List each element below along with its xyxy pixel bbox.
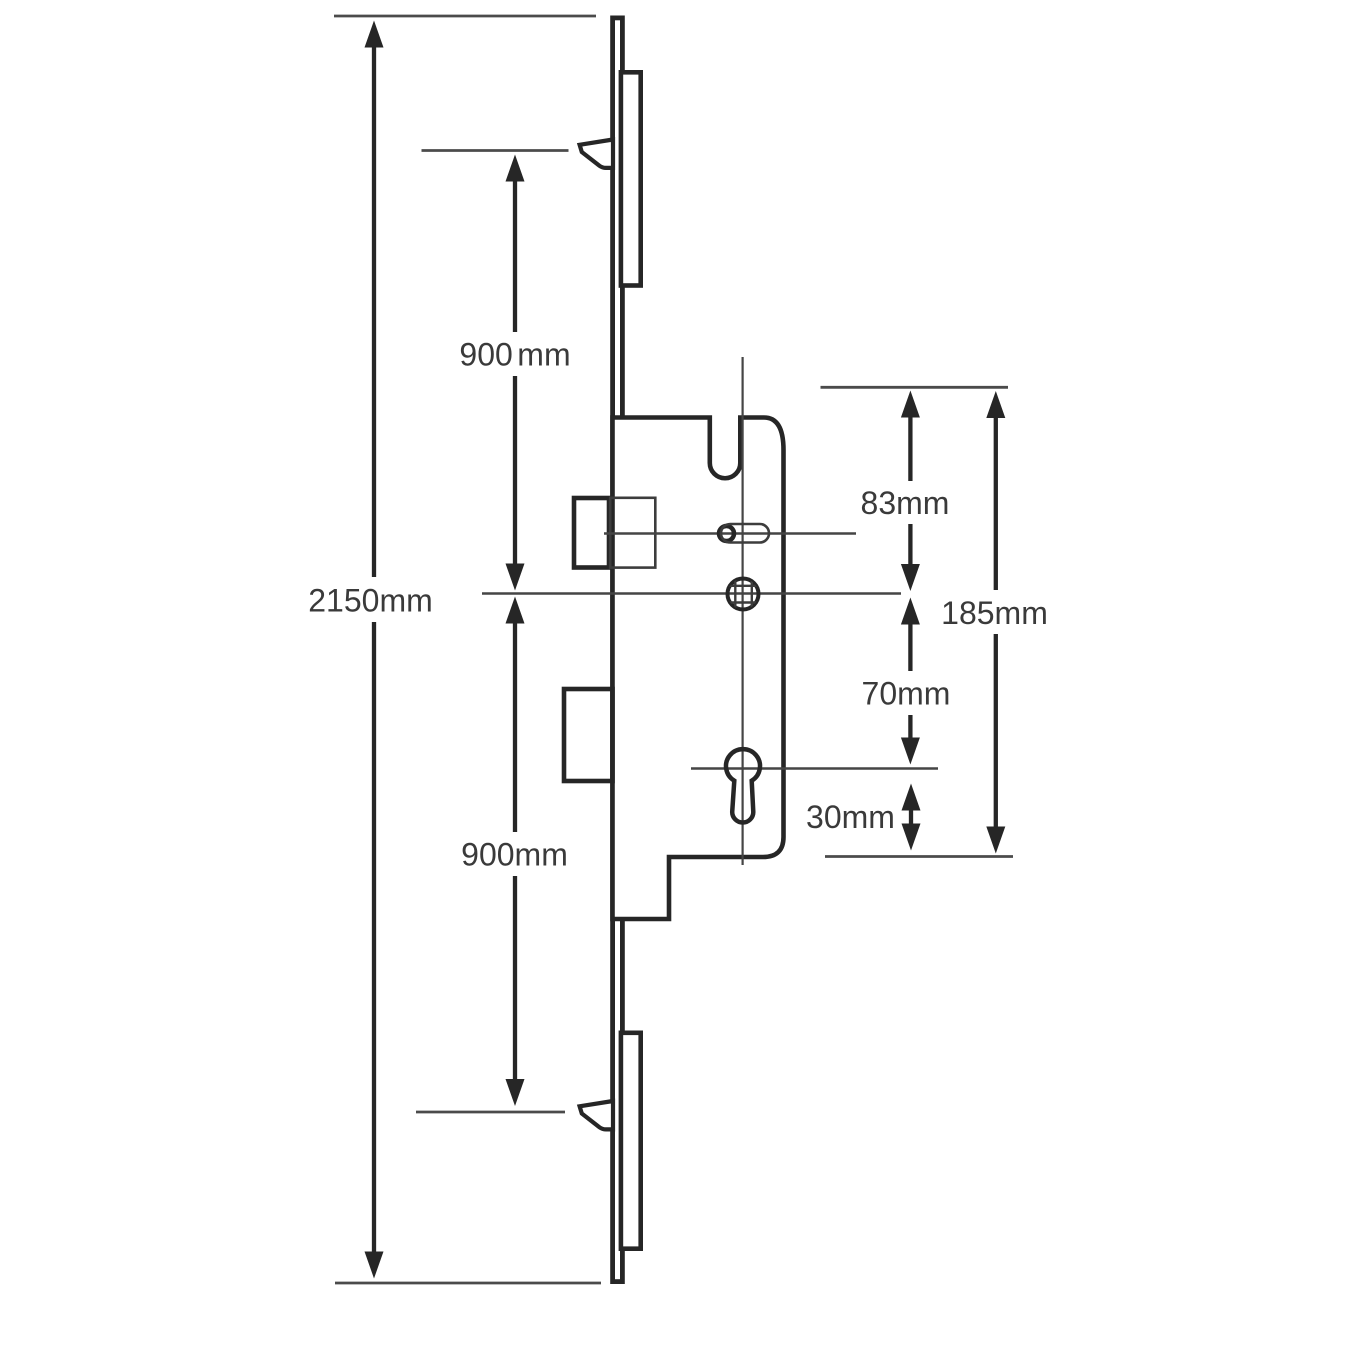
follower housing square xyxy=(610,498,655,568)
euro cylinder profile xyxy=(726,749,760,822)
dimension 30mm vertical (double headed) xyxy=(902,784,921,851)
extension line: cylinder bottom datum xyxy=(825,855,1013,858)
dimension 83mm vertical xyxy=(901,391,920,592)
handle pin circle xyxy=(719,526,734,541)
extension line: 83mm top datum xyxy=(821,386,1009,389)
handle pin reference line xyxy=(604,532,856,535)
spindle follower circle with crosshatch xyxy=(725,576,761,612)
deadbolt upper xyxy=(574,498,609,568)
extension line: upper latch datum xyxy=(422,149,569,152)
cylinder reference line xyxy=(691,767,938,770)
label 900mm upper xyxy=(454,332,576,376)
dimension 70mm vertical xyxy=(901,598,920,765)
svg-text:185mm: 185mm xyxy=(941,595,1048,631)
label 185mm xyxy=(936,590,1055,634)
extension line: faceplate bottom datum xyxy=(335,1282,601,1285)
faceplate (full-height lock strip) xyxy=(613,18,623,1282)
extension line: lower latch datum xyxy=(416,1111,565,1114)
dimension 2150mm vertical xyxy=(365,21,384,1279)
upper latch hook xyxy=(580,140,613,168)
label 900mm lower xyxy=(458,832,572,876)
svg-text:83mm: 83mm xyxy=(861,485,950,521)
dimension 185mm vertical xyxy=(986,391,1005,854)
lower latch hook xyxy=(580,1101,613,1129)
svg-text:2150mm: 2150mm xyxy=(308,583,433,619)
handle pin slot (stadium) xyxy=(721,524,769,543)
lock case body xyxy=(613,418,784,920)
svg-text:900mm: 900mm xyxy=(461,837,568,873)
dimension 900mm lower vertical xyxy=(506,597,525,1107)
extension line: faceplate top datum xyxy=(334,15,596,18)
svg-text:30mm: 30mm xyxy=(806,799,895,835)
label 2150mm xyxy=(303,577,438,622)
centre reference line horizontal xyxy=(482,592,901,595)
lower keep plate xyxy=(621,1033,641,1249)
vertical centreline of lock case xyxy=(741,357,743,865)
deadbolt lower xyxy=(564,689,613,781)
dimension 900mm upper vertical xyxy=(506,155,525,591)
upper keep plate xyxy=(621,72,641,285)
svg-text:70mm: 70mm xyxy=(862,676,951,712)
